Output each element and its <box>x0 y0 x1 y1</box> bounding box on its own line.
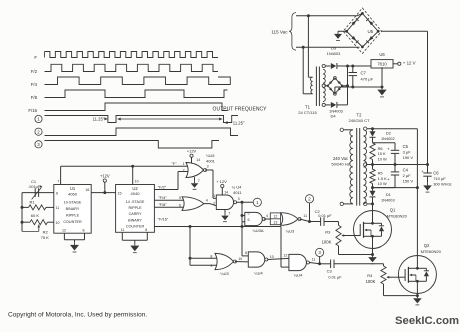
svg-text:BINARY: BINARY <box>66 207 80 211</box>
label R5 <box>378 171 383 176</box>
svg-text:50/240 Hz: 50/240 Hz <box>331 161 349 166</box>
svg-text:3: 3 <box>238 197 240 201</box>
label 240/240 CT <box>349 118 370 123</box>
svg-text:240 Vac: 240 Vac <box>333 156 348 161</box>
pin 4 (U3A) <box>266 214 268 218</box>
svg-text:+12V: +12V <box>187 149 197 154</box>
label 100K (R3) <box>322 240 332 245</box>
pin 8 (U1) <box>83 228 85 232</box>
svg-text:COUNTER: COUNTER <box>126 225 145 229</box>
svg-text:13: 13 <box>273 220 277 224</box>
wire U5A output to U4A <box>205 170 216 198</box>
label 10 W <box>378 156 387 161</box>
svg-text:U1: U1 <box>70 186 76 191</box>
label R3 <box>325 229 331 234</box>
svg-text:CARRY: CARRY <box>129 212 142 216</box>
pin 11 (U2) <box>121 228 125 232</box>
svg-text:D3: D3 <box>331 46 337 51</box>
ground at U2 <box>130 243 139 253</box>
label 4040 <box>131 191 141 196</box>
svg-text:¼U3A: ¼U3A <box>252 228 263 233</box>
gate U3C NOR <box>215 253 236 269</box>
label 1/4 U5 <box>206 153 215 158</box>
svg-text:5: 5 <box>179 196 181 200</box>
label D1 <box>386 192 392 197</box>
wire T1 primary top lead <box>308 16 312 77</box>
annotation 11.25 deg left <box>93 117 108 122</box>
svg-text:100K: 100K <box>322 240 332 245</box>
pin 7 (U1) <box>57 179 59 183</box>
label U2 <box>132 186 138 191</box>
label F/16 <box>28 108 37 113</box>
svg-text:1: 1 <box>213 194 215 198</box>
svg-text:11.25°: 11.25° <box>93 117 105 122</box>
svg-text:15: 15 <box>118 191 122 195</box>
gate U4B NAND <box>248 252 267 267</box>
capacitor C2 <box>310 217 339 226</box>
wire T1 primary bottom lead <box>303 47 312 94</box>
pin 11 (U3B) <box>303 214 307 218</box>
label Q1 <box>390 208 396 213</box>
label 1/4 U3A <box>252 228 263 233</box>
label CARRY (U2) <box>129 212 142 216</box>
wire U6 output <box>393 62 401 65</box>
potentiometer R3 <box>336 222 347 246</box>
transistor Q2 body circle <box>398 256 436 294</box>
wire to U3C inputs <box>189 227 217 266</box>
wire U3C out to U4B <box>235 261 248 263</box>
wire U1 pin6 line <box>22 192 54 194</box>
label 240 Vac <box>333 156 348 161</box>
svg-text:10 W: 10 W <box>378 156 387 161</box>
svg-text:D4: D4 <box>330 114 336 119</box>
svg-text:5: 5 <box>248 211 250 215</box>
copyright text <box>8 312 147 319</box>
wire U2 bottom pins to ground <box>122 232 147 243</box>
label 1N4003 (D4) <box>329 109 343 114</box>
capacitor C5 <box>373 143 400 165</box>
wire clock F line <box>61 165 188 167</box>
T2 primary bottom terminal <box>340 202 353 205</box>
svg-text:¼U4: ¼U4 <box>294 273 303 278</box>
label F <box>34 55 37 60</box>
svg-text:4001: 4001 <box>206 158 216 163</box>
svg-text:F/8: F/8 <box>31 95 38 100</box>
wire to U3A input 5 <box>242 215 245 217</box>
svg-text:12: 12 <box>283 253 287 257</box>
svg-text:RIPPLE: RIPPLE <box>66 213 80 217</box>
ground rail under T1 bridge <box>335 86 384 94</box>
transformer T2 secondary winding <box>364 130 367 204</box>
wire U4C out to node3 junction <box>309 262 321 265</box>
label 1/4 U4 (B) <box>254 271 263 276</box>
label RIPPLE (U2) <box>128 206 142 210</box>
label C2 <box>315 209 321 214</box>
net label F/16 <box>158 217 169 222</box>
label 10 W (R5) <box>378 181 387 186</box>
svg-text:C5: C5 <box>403 144 409 149</box>
svg-text:F/4: F/4 <box>31 82 38 87</box>
wire center tap line <box>367 164 428 166</box>
SeekIC.com logo <box>395 315 459 327</box>
svg-text:6: 6 <box>248 218 250 222</box>
svg-text:4011: 4011 <box>233 190 242 195</box>
wire R4 bottom to Q2 source <box>384 284 418 296</box>
T2 secondary center tap <box>364 163 367 166</box>
node circle 3 <box>316 248 324 264</box>
svg-text:100K: 100K <box>366 279 376 284</box>
small bridge at T1 secondary <box>327 77 344 96</box>
svg-text:C3: C3 <box>327 269 333 274</box>
svg-text:¼U4: ¼U4 <box>254 271 263 276</box>
wire R5 to D1 node <box>372 184 374 191</box>
wire U3A out <box>264 218 271 220</box>
label 190 V <box>403 155 414 160</box>
svg-text:T1: T1 <box>305 105 311 110</box>
pin 11 (U1) <box>56 206 60 210</box>
gate U3B NOR <box>281 213 301 226</box>
capacitor C4 <box>373 165 400 188</box>
label U1 <box>70 186 76 191</box>
svg-text:1N4003: 1N4003 <box>381 198 395 203</box>
wire to U3A input 6 <box>242 221 245 223</box>
waveform row F/8 <box>45 90 228 98</box>
ground at U5A <box>191 177 199 189</box>
pin 8 (U4B) <box>245 251 247 255</box>
svg-text:C4: C4 <box>403 168 409 173</box>
regulator U6 box <box>371 60 393 68</box>
svg-text:U2: U2 <box>132 186 138 191</box>
gate U5A NOR (4001) <box>186 163 207 178</box>
svg-text:16: 16 <box>85 188 89 192</box>
label D4 <box>330 114 336 119</box>
gate U5B OR <box>182 197 204 211</box>
waveform row F/4 <box>45 77 231 85</box>
transformer T1 primary winding <box>311 77 313 94</box>
resistor R1 <box>22 205 54 210</box>
label C4 <box>403 168 409 173</box>
svg-text:8: 8 <box>245 251 247 255</box>
label C5 <box>403 144 409 149</box>
pin 8 (U2) <box>145 228 147 232</box>
svg-text:RIPPLE: RIPPLE <box>128 206 142 210</box>
wire U1-U2 link <box>91 191 115 194</box>
label 14-STAGE <box>126 200 145 204</box>
label 4011 <box>233 190 242 195</box>
pin 1 (U5A) <box>183 162 185 166</box>
svg-text:10: 10 <box>270 255 274 259</box>
svg-text:"F/8": "F/8" <box>158 202 167 207</box>
wire R3 bottom to Q1 source <box>339 246 373 255</box>
label U5 <box>368 29 374 34</box>
pin 11 (U4C) <box>312 257 316 261</box>
bridge rectifier U5 diodes <box>345 12 379 48</box>
wire Q1 source <box>371 249 374 256</box>
label BINARY (U1) <box>66 207 80 211</box>
pin 5 (U5B) <box>179 196 181 200</box>
svg-text:+: + <box>387 147 390 152</box>
gate U3A NAND <box>245 212 265 225</box>
regulator ground <box>377 67 386 97</box>
wire D3-D4 join vertical <box>346 66 349 105</box>
diode D3 <box>331 63 371 69</box>
label RIPPLE (U1) <box>66 213 80 217</box>
pin 1 (U4A) <box>213 194 215 198</box>
svg-text:Copyright of Motorola, Inc. Us: Copyright of Motorola, Inc. Used by perm… <box>8 312 147 319</box>
wire D1 node to Q2 rail <box>373 187 418 189</box>
pin 12 (U1) <box>62 228 66 232</box>
label 50/240 Hz <box>331 161 349 166</box>
label 3 uF <box>403 150 412 155</box>
potentiometer R4 <box>381 264 404 284</box>
svg-text:MTE60N20: MTE60N20 <box>421 249 442 254</box>
label 1/4 U3 <box>286 228 295 233</box>
svg-text:12: 12 <box>62 228 66 232</box>
wire F/16 long line <box>154 225 281 228</box>
ground at C6 <box>423 183 432 192</box>
svg-text:1N4002: 1N4002 <box>381 136 395 141</box>
svg-text:F: F <box>34 55 37 60</box>
svg-text:F/16: F/16 <box>28 108 37 113</box>
label 1N4003 (D3) <box>327 51 341 56</box>
svg-text:¼ U4: ¼ U4 <box>232 185 242 190</box>
label 2 uF <box>403 173 412 178</box>
diode D4 <box>331 102 348 108</box>
wire node1 vertical <box>241 202 244 256</box>
pin 16 (U1) <box>85 188 89 192</box>
svg-text:8: 8 <box>210 254 212 258</box>
svg-text:9: 9 <box>210 264 212 268</box>
svg-text:¼U3: ¼U3 <box>286 228 295 233</box>
label R6 <box>378 146 383 151</box>
node circle 2 <box>305 195 313 222</box>
net label F/4 <box>158 195 167 200</box>
label 0.01 uF (C3) <box>328 274 342 279</box>
pin 6 (U5B) <box>179 203 181 207</box>
label 300 WVdc <box>433 182 451 187</box>
pin 10 (U3C) <box>238 257 242 261</box>
T2 secondary top terminal <box>364 127 373 130</box>
T1 secondary bottom terminal <box>322 103 330 106</box>
+12V supply at U4A <box>216 179 227 195</box>
wire U1 bottom pins to ground <box>64 233 84 242</box>
label F/4 <box>31 82 38 87</box>
svg-text:7: 7 <box>198 179 200 183</box>
wire F/4 output <box>154 199 184 201</box>
label D3 <box>331 46 337 51</box>
label T2 <box>357 112 363 117</box>
svg-text:7: 7 <box>57 179 59 183</box>
counter U2 box <box>116 185 155 233</box>
node label circle 2 (waveform) <box>35 128 42 135</box>
T1 secondary mid terminal <box>322 84 328 87</box>
wire 115Vac top rail <box>296 13 362 15</box>
label 1N4002 <box>381 136 395 141</box>
pin 14 (U5A) <box>196 158 200 162</box>
T1 secondary top terminal <box>322 64 330 67</box>
pin box 12/13 <box>270 213 280 225</box>
T2 primary top terminal <box>340 128 353 131</box>
wire 115Vac bottom rail <box>296 46 360 48</box>
115 Vac brace <box>289 13 296 51</box>
svg-text:10-STAGE: 10-STAGE <box>64 200 82 204</box>
ground at Q2 source <box>413 296 422 305</box>
label MTE60N20 (Q1) <box>387 214 408 219</box>
label C7 <box>361 71 367 76</box>
svg-text:BINARY: BINARY <box>128 218 142 222</box>
svg-text:T2: T2 <box>357 112 363 117</box>
waveform row node 2 <box>45 128 239 136</box>
wire node1 branch to U4B input <box>242 255 248 257</box>
svg-text:R1: R1 <box>30 199 36 204</box>
svg-text:+ 12V: + 12V <box>216 179 227 184</box>
svg-text:10: 10 <box>238 257 242 261</box>
svg-text:1: 1 <box>183 162 185 166</box>
svg-text:+ 12 V: + 12 V <box>403 61 416 66</box>
svg-text:11: 11 <box>303 214 307 218</box>
svg-text:¼U3: ¼U3 <box>220 271 229 276</box>
waveform row node 3 <box>45 141 220 149</box>
svg-text:8: 8 <box>145 228 147 232</box>
svg-text:240/240 CT: 240/240 CT <box>349 118 370 123</box>
label R2 <box>43 229 49 234</box>
pin 6 (U1) <box>56 192 58 196</box>
svg-text:14 -STAGE: 14 -STAGE <box>126 200 145 204</box>
junction D1 node <box>371 186 374 189</box>
pin 5 (U3A) <box>248 211 250 215</box>
wire left vertical (C1/R1/R2) <box>21 193 24 232</box>
label 710 uF <box>433 176 446 181</box>
label +12V output <box>403 61 416 66</box>
svg-text:190 V: 190 V <box>403 155 414 160</box>
transformer T1 core <box>316 67 319 107</box>
115 Vac label <box>271 30 288 35</box>
wire U5 right corner to +HV rail <box>382 31 428 164</box>
transistor Q2 MOSFET symbol <box>404 256 429 294</box>
pin 2 (U4A) <box>213 202 215 206</box>
svg-text:0.01 µF: 0.01 µF <box>318 213 332 218</box>
pin 7 (U5A) <box>198 179 200 183</box>
svg-text:12: 12 <box>273 215 277 219</box>
transformer T1 secondary winding <box>323 69 325 101</box>
bridge rectifier U5 dashed outline <box>343 8 381 54</box>
svg-text:470 µF: 470 µF <box>361 77 374 82</box>
wire R6 to center tap node <box>372 160 374 170</box>
svg-text:"F/4": "F/4" <box>158 195 167 200</box>
wire Q2 source <box>416 294 419 298</box>
svg-text:710 µF: 710 µF <box>433 176 446 181</box>
label 1N4003 (D1) <box>381 198 395 203</box>
wire F/16 corner down to U4 gate input <box>281 227 289 268</box>
svg-text:SeekIC.com: SeekIC.com <box>395 315 459 327</box>
transistor Q1 MOSFET symbol <box>347 211 385 249</box>
label U6 <box>379 52 385 57</box>
svg-text:10 W: 10 W <box>378 181 387 186</box>
svg-text:4040: 4040 <box>131 191 141 196</box>
label F/2 <box>31 69 38 74</box>
net label F/8 <box>158 202 167 207</box>
wire F/8 output <box>154 206 184 208</box>
svg-text:14: 14 <box>224 191 228 195</box>
transistor Q1 body circle <box>354 211 392 249</box>
svg-text:"F/2": "F/2" <box>158 184 167 189</box>
svg-text:R2: R2 <box>43 229 49 234</box>
svg-text:11: 11 <box>121 228 125 232</box>
label R4 <box>367 273 373 278</box>
svg-text:6: 6 <box>179 203 181 207</box>
capacitor C1 (trimmer) <box>32 185 43 199</box>
resistor R2 (trimmer) <box>22 220 54 232</box>
annotation 11.25 deg right <box>224 120 245 125</box>
pin 15 (U2) <box>118 191 122 195</box>
svg-text:C7: C7 <box>361 71 367 76</box>
node label circle 1 (waveform) <box>35 115 42 122</box>
label C6 <box>433 171 439 176</box>
pin 6 (U3A) <box>248 218 250 222</box>
label 1.5 K <box>378 176 387 181</box>
resistor R6 <box>370 143 375 160</box>
svg-text:D2: D2 <box>386 130 392 135</box>
svg-text:1N4003: 1N4003 <box>327 51 341 56</box>
waveform row node 1 <box>45 116 239 123</box>
svg-text:24 CT/115: 24 CT/115 <box>298 110 317 115</box>
wire U1 pin7 clock feedback <box>60 166 62 184</box>
svg-text:Q2: Q2 <box>424 243 430 248</box>
+12V supply at U1/U2 <box>100 173 110 192</box>
ground at U4A <box>221 210 229 222</box>
ground at U1 <box>70 242 79 252</box>
label COUNTER (U1) <box>63 220 82 224</box>
waveform row F (clock) <box>45 52 218 58</box>
label D2 <box>386 130 392 135</box>
svg-text:3: 3 <box>207 165 209 169</box>
svg-text:4: 4 <box>266 214 268 218</box>
svg-text:+12V: +12V <box>100 173 110 178</box>
svg-text:Q1: Q1 <box>390 208 396 213</box>
net label F <box>171 161 177 166</box>
wire small bridge right corner <box>342 85 347 87</box>
svg-text:D1: D1 <box>386 192 392 197</box>
svg-text:14: 14 <box>196 158 200 162</box>
resistor R5 <box>370 169 375 183</box>
wire F/2 output <box>154 172 188 190</box>
svg-text:MTE60N20: MTE60N20 <box>387 214 408 219</box>
svg-text:4060: 4060 <box>68 192 78 197</box>
gate U4A NAND (4011) <box>216 195 236 210</box>
svg-text:7810: 7810 <box>377 62 387 67</box>
wire U3B output to node2 junction <box>300 219 312 223</box>
svg-text:11: 11 <box>56 206 60 210</box>
waveform row F/16 (output frequency) <box>45 103 228 111</box>
label 60 K <box>31 213 40 218</box>
pin 12 (U4C) <box>283 253 287 257</box>
svg-text:7: 7 <box>228 212 230 216</box>
T2 secondary bottom terminal <box>364 202 373 205</box>
svg-text:"F/16": "F/16" <box>158 217 169 222</box>
node circle 1 <box>253 198 261 206</box>
transformer T2 core <box>357 128 360 206</box>
wire U2 pin10 clock input <box>131 165 134 185</box>
label 1/4 U3 (C) <box>220 271 229 276</box>
wire T2 top node to right rail <box>371 127 417 130</box>
junction center node <box>371 163 374 166</box>
svg-text:+: + <box>387 177 390 182</box>
pin 2 (U5A) <box>183 169 185 173</box>
ground at Q1 source <box>368 255 377 264</box>
label C3 <box>327 269 333 274</box>
junction top rail <box>307 14 310 17</box>
svg-text:11.25°: 11.25° <box>233 120 245 125</box>
